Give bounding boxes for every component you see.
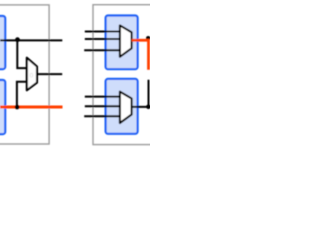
junction node on M3 output bbox=[146, 105, 151, 110]
orange net N2 (width-error wire) bbox=[0, 106, 63, 109]
junction node N1 bbox=[15, 37, 20, 42]
mux U4 selection rect (bottom-right) bbox=[106, 79, 138, 134]
subcircuit box U2 (right, clipped) bbox=[93, 5, 157, 145]
wire lower input to orange net bbox=[17, 82, 28, 107]
svg-text:0: 0 bbox=[30, 73, 34, 80]
orange net N3: mux output bbox=[132, 40, 149, 70]
subcircuit box U1 (left, clipped) bbox=[0, 5, 49, 144]
wire U4 select input bbox=[84, 115, 120, 117]
multiplexer M1 (left, unselected) bbox=[27, 58, 37, 91]
multiplexer M3 (bottom-right) bbox=[120, 92, 132, 123]
wire M3 output to riser bbox=[132, 80, 149, 107]
wires U3 data inputs bbox=[85, 31, 120, 33]
junction dot under orange corner bbox=[146, 36, 150, 40]
component A1 selection rect (upper-left, clipped) bbox=[0, 16, 5, 69]
junction node on orange net bbox=[15, 105, 20, 110]
wire N1 branch to mux upper input bbox=[17, 40, 27, 68]
multiplexer M2 (top-right) bbox=[120, 25, 132, 56]
wire M1 output bbox=[37, 73, 62, 75]
component A2 selection rect (lower-left, clipped) bbox=[0, 80, 5, 134]
wire net N1 horizontal bbox=[0, 39, 62, 41]
wire U3 select input bbox=[84, 49, 120, 51]
wires U4 data inputs bbox=[85, 96, 120, 98]
mux U3 selection rect (top-right) bbox=[106, 16, 138, 70]
